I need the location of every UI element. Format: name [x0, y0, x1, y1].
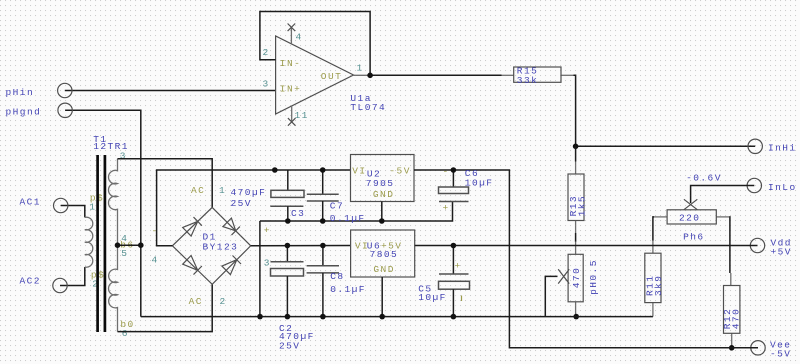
transformer pin 6 label	[120, 319, 134, 339]
svg-text:-: -	[443, 166, 450, 177]
svg-text:-5V: -5V	[389, 165, 410, 176]
transformer secondary winding 2	[109, 245, 118, 331]
wire U2 output to Vee	[414, 170, 758, 348]
svg-text:-0.6V: -0.6V	[686, 172, 722, 183]
junction pot bottom on gnd rail	[573, 314, 579, 320]
wire U6 output to Vdd	[415, 245, 758, 247]
wire R15 to InHi node	[574, 75, 576, 146]
junction center tap right	[138, 242, 144, 248]
svg-text:C8: C8	[330, 271, 344, 282]
svg-text:1: 1	[357, 63, 364, 74]
wire center tap	[118, 244, 141, 246]
svg-text:2: 2	[220, 296, 227, 307]
junction center tap left	[115, 242, 121, 248]
capacitor C2 470uF 25V	[271, 246, 315, 352]
svg-text:BY123: BY123	[203, 241, 239, 252]
svg-text:C7: C7	[330, 201, 344, 212]
svg-text:TL074: TL074	[350, 102, 386, 113]
svg-text:+5V: +5V	[771, 246, 792, 257]
bridge rectifier D1 BY123	[172, 207, 250, 284]
transformer pins 4 5 labels	[120, 233, 134, 259]
svg-text:11: 11	[295, 110, 309, 121]
svg-text:pH0.5: pH0.5	[588, 259, 599, 295]
regulator U6 7805	[351, 230, 415, 277]
svg-text:1: 1	[89, 201, 96, 212]
svg-text:5: 5	[121, 248, 128, 259]
transformer primary pin label top	[89, 193, 104, 213]
svg-text:OUT: OUT	[321, 71, 342, 82]
wire feedback OUT to IN-	[260, 12, 370, 76]
port InLo	[747, 178, 797, 193]
svg-text:25V: 25V	[279, 341, 300, 352]
wire gnd mid-to-bottom link	[259, 221, 261, 317]
junction R12 bottom on Vee rail	[729, 345, 735, 351]
svg-text:10µF: 10µF	[418, 292, 447, 303]
svg-text:+: +	[455, 261, 462, 272]
svg-text:-5V: -5V	[770, 348, 791, 359]
junction dots	[257, 167, 456, 319]
svg-text:10µF: 10µF	[465, 178, 494, 189]
wire OUT to R15	[370, 74, 501, 76]
port Vdd	[750, 237, 792, 257]
regulator U2 7905	[351, 155, 415, 202]
transformer core	[98, 155, 105, 332]
port pHgnd	[6, 103, 141, 317]
wire InHi node down to R13	[575, 146, 577, 161]
svg-text:7905: 7905	[366, 178, 395, 189]
svg-text:6: 6	[122, 328, 129, 339]
svg-text:220: 220	[679, 213, 700, 224]
resistor R13	[568, 162, 588, 234]
svg-text:1k5: 1k5	[577, 195, 588, 216]
svg-text:AC2: AC2	[20, 276, 41, 287]
port pHin	[6, 83, 276, 98]
wire gnd mid rail	[260, 202, 453, 222]
svg-text:pHgnd: pHgnd	[6, 107, 42, 118]
svg-text:2: 2	[263, 47, 270, 58]
svg-text:+: +	[264, 225, 271, 236]
svg-text:3: 3	[264, 258, 271, 269]
transformer secondary winding 1	[108, 159, 117, 245]
wire gnd bottom rail	[141, 316, 653, 318]
svg-text:1: 1	[219, 185, 226, 196]
svg-text:33k: 33k	[517, 75, 538, 86]
transformer primary pin label bottom	[91, 270, 105, 290]
wire pot wiper to gnd rail	[545, 276, 557, 316]
diode upper-right	[223, 218, 240, 235]
resistor R11	[645, 241, 665, 317]
svg-text:3: 3	[263, 79, 270, 90]
svg-text:25V: 25V	[231, 198, 252, 209]
wire secondary top to bridge AC1	[118, 159, 213, 208]
svg-text:VI: VI	[352, 165, 366, 176]
svg-text:C3: C3	[291, 208, 305, 219]
capacitor C8 0.1uF	[307, 246, 366, 317]
wire U6 gnd stub	[381, 277, 383, 317]
potentiometer 470 pH0.5	[558, 242, 599, 317]
wire secondary bottom to bridge AC2	[118, 284, 213, 331]
svg-text:InLo: InLo	[768, 182, 797, 193]
svg-text:4: 4	[296, 32, 303, 43]
wire bridge plus to U6	[251, 245, 351, 247]
wire pot220 right to R12	[728, 217, 731, 273]
wire pot220 left to R11	[653, 217, 654, 241]
op-amp U1a	[276, 36, 387, 114]
svg-text:InHi: InHi	[768, 143, 797, 154]
op-amp pin 11 no-connect	[288, 106, 309, 126]
svg-text:0.1µF: 0.1µF	[330, 284, 366, 295]
svg-text:470: 470	[730, 308, 741, 329]
svg-text:3k9: 3k9	[653, 275, 664, 296]
junction OUT node	[367, 73, 373, 79]
svg-text:0.1µF: 0.1µF	[330, 213, 366, 224]
wire R13 to pot	[575, 233, 577, 242]
op-amp pin 1 stub	[354, 74, 371, 76]
svg-text:+: +	[443, 203, 450, 214]
wire InLo to pot 220 wiper	[691, 186, 755, 204]
svg-text:IN+: IN+	[280, 84, 301, 95]
svg-text:Ph6: Ph6	[683, 232, 704, 243]
junction InHi node	[573, 144, 579, 150]
capacitor C7 0.1uF	[307, 170, 366, 224]
svg-text:AC: AC	[191, 185, 205, 196]
svg-text:3: 3	[120, 151, 127, 162]
port Vee	[751, 339, 792, 359]
svg-text:GND: GND	[373, 264, 394, 275]
diode lower-right	[222, 256, 241, 275]
svg-text:4: 4	[152, 255, 159, 266]
svg-text:IN-: IN-	[280, 58, 301, 69]
port AC1	[20, 197, 85, 218]
diode lower-left	[183, 256, 202, 275]
capacitor C3 470uF 25V	[231, 170, 306, 221]
wire InHi node to port	[576, 145, 756, 147]
capacitor C6 10uF	[439, 166, 494, 214]
resistor R12	[722, 273, 742, 348]
wire bridge minus to top rail	[157, 170, 351, 246]
svg-text:GND: GND	[373, 189, 394, 200]
svg-text:AC1: AC1	[20, 197, 41, 208]
svg-text:-: -	[152, 226, 159, 237]
transformer primary winding	[85, 217, 93, 267]
svg-text:470: 470	[571, 267, 582, 288]
port AC2	[20, 267, 85, 293]
transformer T1 12TR1	[93, 134, 129, 152]
bridge pin labels	[152, 185, 271, 307]
op-amp pin 4 no-connect	[288, 24, 303, 44]
port InHi	[748, 139, 797, 153]
capacitor C5 10uF	[418, 246, 469, 317]
svg-text:pHin: pHin	[6, 87, 35, 98]
svg-text:7805: 7805	[370, 249, 399, 260]
resistor R15	[502, 66, 574, 87]
potentiometer 220 Ph6	[654, 199, 729, 242]
diode upper-left	[183, 217, 202, 236]
svg-text:AC: AC	[189, 296, 203, 307]
wire U2 gnd stub	[381, 202, 383, 222]
svg-text:470µF: 470µF	[231, 187, 267, 198]
